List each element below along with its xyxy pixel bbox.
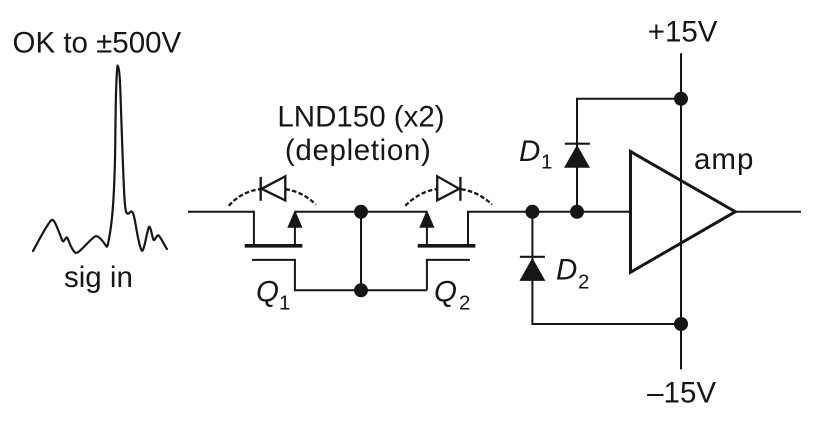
svg-text:1: 1: [541, 151, 552, 174]
svg-text:(depletion): (depletion): [285, 134, 432, 167]
node D1 junction: [570, 205, 584, 219]
Q2 drain lead: [467, 211, 469, 244]
Q2 source lead: [426, 212, 428, 244]
svg-text:+15V: +15V: [648, 15, 718, 48]
svg-text:LND150 (x2): LND150 (x2): [277, 100, 444, 133]
wire amp output: [735, 211, 801, 213]
svg-text:OK to ±500V: OK to ±500V: [13, 27, 182, 60]
svg-text:2: 2: [578, 270, 589, 293]
wire input: [188, 211, 254, 213]
wire bottom gates: [294, 289, 427, 291]
body diode of Q2 (dashed arc): [405, 176, 492, 206]
svg-text:amp: amp: [694, 143, 754, 176]
Q2 gate lead down: [426, 259, 428, 290]
Q1 channel bar: [245, 244, 303, 248]
Q1 gate lead down: [294, 259, 296, 290]
svg-text:Q: Q: [256, 276, 279, 309]
Q2 gate: [427, 259, 470, 261]
svg-text:D: D: [556, 253, 577, 286]
Q1 source arrow: [287, 210, 302, 228]
transistor Q1: [245, 210, 303, 290]
node top-center junction: [354, 205, 368, 219]
svg-text:D: D: [519, 135, 540, 168]
svg-text:2: 2: [459, 292, 470, 315]
node D2 junction: [525, 205, 539, 219]
op-amp U1: [631, 152, 736, 273]
node +15V junction: [674, 92, 688, 106]
wire Q2 drain to amp input: [468, 211, 631, 213]
diode D1: [564, 144, 590, 168]
body diode D symbol Q1: [260, 177, 262, 201]
Q2 channel bar: [418, 244, 476, 248]
svg-text:–15V: –15V: [647, 377, 716, 410]
transistor Q2: [418, 210, 476, 290]
svg-text:Q: Q: [434, 276, 457, 309]
svg-text:sig in: sig in: [64, 261, 133, 294]
wire top Q1-source to Q2-source: [295, 211, 427, 213]
waveform sig in: [33, 66, 167, 253]
body diode D symbol Q2: [437, 176, 459, 200]
diode D2 branch wire: [532, 212, 681, 324]
svg-text:1: 1: [279, 292, 290, 315]
diode D1 branch wire: [577, 99, 681, 212]
Q1 source lead: [294, 212, 296, 244]
Q1 gate: [252, 259, 296, 261]
node -15V junction: [674, 317, 688, 331]
diode D2: [519, 257, 545, 281]
node bottom-center junction: [354, 283, 368, 297]
body diode of Q1 (dashed arc): [229, 176, 316, 206]
wire center vertical: [360, 212, 362, 290]
Q2 source arrow: [419, 210, 434, 228]
power rail: [680, 53, 682, 369]
Q1 drain lead: [253, 211, 255, 244]
